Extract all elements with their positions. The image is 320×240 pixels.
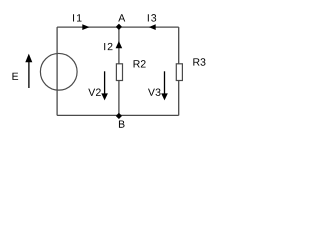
E emf arrow (pointing up) [28, 60, 30, 88]
label B [119, 120, 125, 127]
wire left vertical [56, 27, 58, 115]
label A [118, 14, 125, 21]
node A junction dot [116, 24, 121, 29]
label R3 [193, 58, 205, 65]
label V3 [148, 88, 161, 95]
wire top (left corner to right corner through node A) [57, 26, 179, 28]
label I3 [148, 14, 156, 21]
label V2 [88, 89, 100, 96]
wire right vertical [178, 27, 180, 115]
voltage arrow V2 (downward) [104, 71, 106, 94]
voltage source E (circle) [40, 53, 77, 90]
label E [12, 73, 18, 80]
current arrow I1 (rightward on top wire) [82, 24, 89, 30]
voltage arrow V3 (downward) [164, 71, 166, 94]
current arrow I3 (leftward on top wire) [149, 24, 156, 30]
resistor R3 body [176, 64, 182, 81]
label R2 [134, 60, 146, 67]
wire bottom (left corner to right corner through node B) [57, 114, 179, 116]
label I2 [104, 43, 112, 50]
resistor R2 body [116, 64, 122, 81]
wire middle vertical (node A to node B) [118, 27, 120, 115]
node B junction dot [116, 113, 121, 118]
current arrow I2 (upward on middle wire) [116, 41, 123, 48]
label I1 [73, 14, 81, 21]
